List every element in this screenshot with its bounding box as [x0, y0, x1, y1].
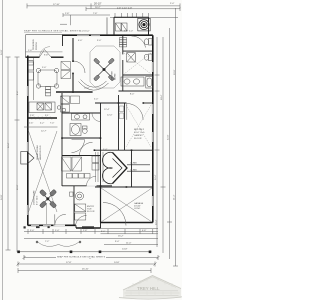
svg-text:8'-4": 8'-4" — [17, 90, 19, 95]
archway arcs — [79, 82, 109, 91]
svg-text:9'-4": 9'-4" — [115, 241, 120, 243]
exterior wall top (front wall of left wing) — [26, 56, 64, 58]
svg-text:GREAT ROOM: GREAT ROOM — [36, 145, 39, 160]
left vertical dimension line 1 — [6, 57, 11, 250]
toilet 1 — [144, 39, 152, 46]
bottom dim row 0 — [24, 229, 158, 234]
master/bath divider wall — [122, 35, 124, 54]
svg-text:LIVING ROOM: LIVING ROOM — [34, 191, 36, 205]
exterior bottom wall garage section — [101, 222, 153, 224]
living room door swing arc — [55, 214, 66, 225]
svg-text:FLOOR: FLOOR — [134, 138, 142, 140]
porch post marks below wall — [24, 226, 26, 228]
svg-text:9'-8": 9'-8" — [44, 55, 49, 57]
stair treads — [96, 152, 104, 182]
svg-text:COVERED: COVERED — [33, 39, 35, 50]
window gaps on top wall — [77, 34, 100, 36]
bath3 tub — [70, 124, 81, 136]
bath door arc — [132, 36, 146, 48]
bottom dim row 4 — [17, 262, 157, 267]
watermark house bottom right — [119, 276, 182, 299]
bath3 toilet — [82, 126, 87, 133]
svg-text:24'-4": 24'-4" — [155, 174, 157, 180]
top dimension line 26'-10" — [27, 3, 180, 8]
master tray ceiling outline — [90, 46, 120, 88]
top dimension line second row right — [86, 7, 180, 11]
kitchen bar stools — [57, 106, 66, 112]
svg-text:CONC: CONC — [134, 208, 141, 210]
foyer ceiling medallion — [76, 192, 84, 200]
svg-text:11'-0": 11'-0" — [126, 242, 132, 244]
bathtub — [146, 77, 153, 89]
covered porch outline top-left — [26, 35, 63, 58]
svg-text:9'-0" CLG: 9'-0" CLG — [37, 195, 39, 205]
living room ceiling fan — [39, 189, 57, 208]
svg-text:MASTER: MASTER — [111, 71, 114, 80]
garage sub dim line — [101, 228, 159, 230]
svg-text:16'-2": 16'-2" — [118, 236, 124, 238]
exterior left wall — [27, 56, 29, 226]
svg-text:41'-4": 41'-4" — [174, 194, 176, 200]
door jamb marks — [61, 60, 144, 187]
bottom line with square markers — [19, 251, 152, 253]
water heater box with fan swirl — [138, 18, 150, 31]
page edge line left — [2, 0, 4, 300]
exterior right wall — [152, 35, 154, 222]
svg-text:26'-10": 26'-10" — [82, 268, 89, 270]
island stack boxes — [46, 87, 51, 96]
bath3 bottom wall — [62, 137, 101, 139]
entry door double swing on porch — [40, 50, 52, 58]
svg-text:TREY HILL: TREY HILL — [137, 286, 160, 291]
svg-text:5'-0": 5'-0" — [94, 99, 99, 101]
master bedroom bottom wall hatched — [56, 91, 93, 93]
svg-text:2'-8": 2'-8" — [30, 115, 35, 117]
svg-text:CARPET: CARPET — [134, 134, 143, 137]
svg-text:4'-2": 4'-2" — [40, 123, 45, 125]
svg-text:24'-4": 24'-4" — [156, 219, 158, 225]
top dimension line second row left — [60, 13, 110, 25]
svg-text:16'-2": 16'-2" — [95, 7, 101, 9]
svg-text:16'-0": 16'-0" — [17, 184, 19, 190]
schedule note bottom — [56, 255, 106, 258]
svg-text:6'-8": 6'-8" — [142, 230, 147, 232]
svg-text:12'-0": 12'-0" — [107, 115, 113, 117]
svg-text:17'-8": 17'-8" — [66, 262, 72, 264]
svg-text:BED RM 2: BED RM 2 — [134, 129, 145, 131]
kitchen right wall stub — [62, 35, 64, 46]
utility bump-out walls — [114, 17, 149, 35]
bath3 door arc — [92, 113, 101, 122]
pantry shelf boxes — [61, 62, 71, 79]
garage X diagonals — [101, 188, 152, 222]
bottom wall window marks — [31, 224, 65, 226]
svg-text:14'-8": 14'-8" — [114, 262, 120, 264]
foyer closet boxes — [75, 204, 86, 220]
kitchen/dining wall hatched — [28, 117, 57, 119]
svg-text:24'-8": 24'-8" — [1, 194, 3, 200]
foyer front door swing arc — [76, 216, 87, 227]
bottom dim row 3 — [23, 255, 160, 260]
fridge boxes — [28, 62, 33, 80]
fireplace bowtie — [21, 152, 34, 165]
water closet shelves — [120, 38, 127, 47]
center divider walls — [61, 93, 63, 186]
garage door arc — [103, 203, 126, 226]
dining dimension line — [24, 126, 58, 128]
svg-text:10'-0" CLG: 10'-0" CLG — [134, 132, 145, 134]
svg-text:5'-0": 5'-0" — [42, 67, 47, 69]
garage left wall — [100, 187, 102, 223]
leader arcs — [37, 242, 80, 247]
nook chairs circles — [36, 68, 58, 88]
shower stall — [127, 53, 136, 63]
svg-text:8'-0": 8'-0" — [101, 231, 106, 233]
bath wall 2 — [123, 74, 153, 76]
right wall window gaps — [152, 62, 154, 206]
kitchen lower counter row — [29, 102, 55, 113]
svg-text:26'-10": 26'-10" — [94, 2, 102, 5]
svg-text:VAULTED CLG: VAULTED CLG — [39, 145, 42, 160]
svg-text:12'-4": 12'-4" — [104, 109, 110, 111]
svg-text:7'-0": 7'-0" — [50, 123, 55, 125]
garage top wall — [95, 186, 153, 188]
svg-text:FLOOR: FLOOR — [87, 211, 95, 213]
garage sub dim line 3 — [104, 243, 158, 245]
washer dryer boxes — [116, 23, 128, 31]
master bedroom left wall — [72, 38, 74, 61]
svg-text:PORCH: PORCH — [36, 42, 38, 50]
stair hall walls — [131, 150, 133, 187]
toilet 2 — [144, 54, 152, 61]
nook table rounded — [38, 70, 57, 87]
exterior bottom wall left section — [28, 224, 76, 226]
svg-text:SEAP PER SCHEDULE SEE DETAIL S: SEAP PER SCHEDULE SEE DETAIL SHEETS — [24, 30, 81, 33]
stair arrow lobes — [103, 152, 150, 183]
svg-text:2'-4": 2'-4" — [170, 3, 175, 5]
svg-text:5'-4": 5'-4" — [103, 149, 108, 151]
garage sub dim line 2 — [101, 233, 159, 235]
svg-text:1'-0": 1'-0" — [28, 50, 33, 52]
left wall window gaps — [27, 86, 29, 215]
svg-text:17'-10": 17'-10" — [53, 4, 60, 6]
closet hatch marks — [119, 106, 123, 119]
bedroom2 door arc — [127, 103, 143, 119]
bottom dim row 1 — [24, 238, 158, 240]
closet shelves — [62, 156, 100, 178]
exterior main top wall — [62, 34, 153, 36]
svg-text:5'-4": 5'-4" — [55, 230, 60, 232]
bed3 bottom wall — [62, 155, 101, 157]
svg-text:7'-8": 7'-8" — [93, 13, 98, 15]
kitchen upper cabinet box — [28, 61, 33, 66]
svg-text:2'-8" 1'-10" 2'-8": 2'-8" 1'-10" 2'-8" — [117, 7, 132, 9]
svg-text:8'-0": 8'-0" — [130, 94, 135, 96]
svg-text:14'-8": 14'-8" — [122, 249, 128, 251]
svg-text:3'-0": 3'-0" — [97, 40, 102, 42]
svg-text:39'-4": 39'-4" — [161, 94, 163, 100]
entry recessed wall — [76, 227, 101, 229]
top dimension line third row ticks — [110, 13, 178, 18]
svg-text:BDRM: BDRM — [115, 73, 117, 80]
ceiling diagonal dashes bath — [124, 53, 151, 74]
svg-text:24'-8": 24'-8" — [1, 49, 3, 55]
bedroom2 bottom wall — [95, 149, 153, 151]
svg-text:12'-7": 12'-7" — [41, 131, 47, 133]
great room X ceiling lines — [29, 131, 58, 224]
svg-text:2'-6": 2'-6" — [29, 123, 34, 125]
svg-text:3'-0": 3'-0" — [30, 230, 35, 232]
front door dark sidelights — [82, 226, 94, 229]
hall closet boxes center — [61, 96, 80, 112]
svg-text:20'-8": 20'-8" — [174, 69, 176, 75]
foyer left wall — [73, 186, 75, 225]
right vertical dimension lines — [155, 8, 179, 266]
bath3 vanity row — [72, 114, 90, 121]
vanity with two sinks — [121, 77, 144, 86]
master ceiling fan — [93, 58, 114, 81]
hall bottom wall — [62, 185, 112, 187]
closet wall bed2 — [124, 103, 126, 150]
hall door arc up — [87, 176, 97, 186]
svg-text:CLIMB: CLIMB — [130, 163, 137, 165]
bath wall 1 — [123, 50, 153, 52]
svg-text:7'-2": 7'-2" — [45, 241, 50, 243]
svg-text:2'-8": 2'-8" — [65, 13, 70, 15]
hall wall vertical — [118, 95, 120, 150]
kitchen counter line — [33, 58, 35, 100]
hall bottom wall — [95, 102, 127, 104]
svg-text:12'-0": 12'-0" — [84, 88, 90, 90]
svg-text:34'-8": 34'-8" — [168, 134, 170, 140]
svg-text:24'-4": 24'-4" — [8, 142, 10, 148]
svg-text:2'-8": 2'-8" — [83, 230, 88, 232]
bed3 door arcs — [72, 140, 85, 153]
svg-text:CLIMB: CLIMB — [130, 169, 137, 171]
svg-text:SEAP PER SCHEDULE SEE DETAIL S: SEAP PER SCHEDULE SEE DETAIL SHEETS — [57, 256, 106, 259]
svg-text:9'-1": 9'-1" — [45, 115, 50, 117]
bump-out niche wall — [106, 17, 108, 35]
small arc door master — [73, 61, 85, 73]
svg-text:4'-0"x5'-0": 4'-0"x5'-0" — [80, 31, 90, 33]
bedroom2 ceiling dashes — [126, 105, 151, 147]
bottom dim row 5 — [18, 268, 151, 273]
svg-text:4'-0": 4'-0" — [78, 40, 83, 42]
stair hall wall — [100, 150, 102, 186]
hall wall at bath bottom — [119, 90, 153, 92]
living side small box — [70, 192, 74, 196]
left vertical dimension line 2 — [15, 57, 20, 252]
hall wall upper vertical — [100, 103, 102, 150]
